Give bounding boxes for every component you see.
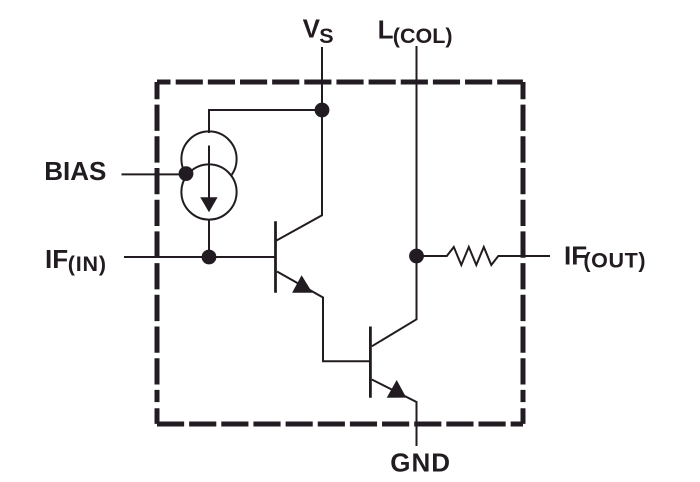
svg-text:L: L [378,15,394,45]
svg-text:IF: IF [45,244,68,274]
transistor Q2 base bar [369,327,372,398]
svg-text:S: S [319,24,333,48]
pin label L(COL) [378,15,453,49]
resistor R (zigzag) with IF(OUT) lead [417,247,551,265]
device boundary dashed box top edge [157,80,523,85]
node IF(IN) junction dot [202,250,217,265]
node VS junction dot [315,103,330,118]
svg-text:V: V [303,14,321,44]
transistor Q2 emitter [372,380,417,447]
svg-text:(OUT): (OUT) [583,249,646,273]
node BIAS junction dot [179,166,194,181]
svg-text:(IN): (IN) [68,252,107,276]
transistor Q1 base bar [274,221,277,292]
transistor Q2 emitter arrowhead [387,380,407,398]
transistor Q1 collector (to VS node) [277,110,323,241]
wire IF(IN) lead to Q1 base [124,256,275,258]
wire current source top to VS node [209,110,322,133]
device boundary dashed box bottom edge [157,422,523,427]
wire L(COL) lead down to output node [416,46,418,256]
wire VS lead [321,47,323,110]
current source I1 arrow [200,146,217,213]
node IF(OUT) junction dot [409,249,424,264]
svg-text:(COL): (COL) [393,24,453,48]
svg-text:BIAS: BIAS [44,156,106,186]
svg-text:GND: GND [390,448,451,478]
wire BIAS lead [122,173,188,175]
pin label IF(IN) [45,244,107,276]
pin label VS [303,14,334,49]
pin label IF(OUT) [564,240,646,272]
transistor Q1 emitter arrowhead [292,275,312,293]
wire current source bottom to IF(IN) node [208,220,210,258]
device boundary dashed box right edge [521,82,526,424]
transistor Q2 collector (to output node) [372,256,417,346]
device boundary dashed box left edge [155,82,160,424]
transistor Q1 emitter [277,272,369,362]
current source I1 (two overlapping circles, lower circle white-filled over upper) [181,131,236,219]
